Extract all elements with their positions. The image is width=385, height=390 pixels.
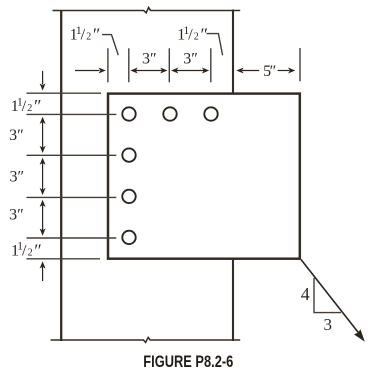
svg-text:11/2″: 11/2″ [70,24,101,44]
top dim: 3in double arrow between bolt columns 1-2 [132,70,166,72]
top dimension extension tick at bolt column 3 [210,48,212,82]
svg-text:FIGURE P8.2-6: FIGURE P8.2-6 [143,353,233,371]
top dim: 5in arrow pointing right at plate edge [278,70,290,72]
applied load arrowhead [354,329,365,341]
top dim: 3in double arrow between bolt columns 2-3 [173,70,207,72]
bolt hole row4 col1 [122,231,135,244]
bolt hole row3 col1 [122,190,135,203]
top dimension extension tick at bolt column 1 [128,48,130,82]
bolt hole row1 col1 [122,107,135,120]
leader for top-left 1-1/2 label [102,35,118,56]
left dim: bottom outside arrow pointing up [42,267,44,281]
top dim: 5in arrow pointing left at column face [242,70,259,72]
top dimension extension tick at plate left edge [107,48,109,82]
column top edge with break symbol [53,8,241,13]
left chain extension line at bolt row 4 [27,237,117,239]
left chain extension line at bolt row 3 [27,196,117,198]
svg-text:11/2″: 11/2″ [11,96,42,116]
svg-text:3″: 3″ [9,127,24,144]
svg-text:3″: 3″ [183,50,198,67]
gusset plate [108,94,300,259]
svg-text:4: 4 [301,284,310,304]
left chain extension line at plate top edge [27,92,102,94]
left chain extension line at plate bottom edge [27,258,101,260]
leader for top-right 1-1/2 label [207,34,223,56]
left dim: 3in double arrow rows1-2 [42,120,44,150]
column left flange line [60,10,62,341]
left dim: top outside arrow pointing down [42,71,44,85]
svg-text:11/2″: 11/2″ [11,240,42,260]
applied load arrow shaft (slope 4:3) [301,260,359,333]
bolt hole row1 col3 [204,107,217,120]
bolt hole row1 col2 [163,107,176,120]
column right flange line upper segment [232,10,234,94]
svg-text:3″: 3″ [9,207,24,224]
left chain extension line at bolt row 1 [27,113,117,115]
svg-text:3″: 3″ [142,50,157,67]
svg-text:5″: 5″ [263,63,276,80]
column right flange line lower segment [232,258,234,341]
bolt hole row2 col1 [122,148,135,161]
left dim: 3in double arrow rows2-3 [42,161,44,192]
top dimension extension tick at plate right edge [299,48,301,81]
top dim: outside arrow pointing right to plate edge tick [75,70,100,72]
top dimension extension tick at bolt column 2 [168,48,170,82]
column bottom edge with break symbol [51,337,241,342]
slope triangle legs [314,278,341,313]
svg-text:3″: 3″ [9,168,24,185]
svg-text:11/2″: 11/2″ [177,24,208,44]
left chain extension line at bolt row 2 [27,154,117,156]
svg-text:3: 3 [323,315,332,334]
left dim: 3in double arrow rows3-4 [42,203,44,233]
